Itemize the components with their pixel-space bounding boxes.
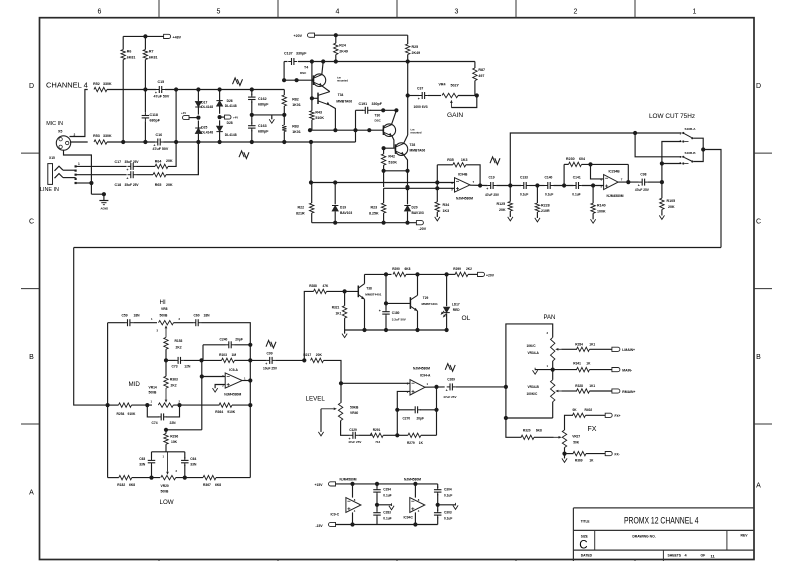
svg-text:LOW: LOW [160, 499, 174, 506]
svg-text:497: 497 [478, 74, 484, 78]
transistor T34 [317, 93, 319, 104]
svg-text:C: C [756, 218, 761, 225]
svg-text:R64: R64 [155, 160, 162, 164]
svg-text:+: + [486, 187, 488, 191]
capacitor C59 [127, 319, 129, 326]
svg-text:IC9-C: IC9-C [331, 512, 340, 516]
resistor R364 [219, 403, 232, 407]
wire C17 to R64 [137, 165, 156, 167]
wire R65 up to diode column [166, 142, 198, 175]
wire R217 down wire [310, 359, 312, 361]
svg-text:910K: 910K [227, 410, 236, 414]
resistor R228 [536, 186, 538, 204]
svg-text:2K49: 2K49 [412, 51, 421, 55]
capacitor C129 [341, 421, 350, 436]
svg-text:33N: 33N [190, 463, 197, 467]
svg-text:C137: C137 [284, 52, 293, 56]
svg-text:NJM4580M: NJM4580M [224, 392, 241, 396]
test point sine 1 [233, 78, 243, 86]
svg-text:C37: C37 [417, 86, 423, 90]
svg-text:1K01: 1K01 [292, 103, 301, 107]
svg-text:12N: 12N [184, 365, 191, 369]
svg-text:IC94C: IC94C [404, 516, 414, 520]
svg-text:C269: C269 [447, 377, 455, 381]
svg-text:C304: C304 [444, 488, 452, 492]
svg-text:NJM4580M: NJM4580M [413, 366, 430, 370]
svg-text:IC294B: IC294B [609, 170, 621, 174]
capacitor C163 [251, 118, 253, 124]
connector MAIN- [612, 368, 620, 372]
svg-text:100K: 100K [597, 209, 606, 213]
svg-text:C64: C64 [190, 457, 196, 461]
svg-text:MAIN-: MAIN- [622, 368, 632, 372]
svg-text:DRAWING NO.: DRAWING NO. [632, 535, 655, 539]
capacitor C270 [397, 409, 412, 411]
svg-text:LMAIN+: LMAIN+ [622, 348, 635, 352]
resistor R35 feedback [436, 165, 438, 183]
wire C141 to pin5 [582, 185, 604, 187]
svg-text:LOW CUT 75Hz: LOW CUT 75Hz [649, 113, 695, 120]
svg-text:1K: 1K [419, 441, 424, 445]
svg-text:BAV103: BAV103 [340, 211, 352, 215]
svg-text:R284: R284 [575, 342, 583, 346]
svg-text:R321: R321 [332, 305, 340, 309]
wire rail to LED col [418, 273, 447, 275]
resistor R230 feedback [563, 164, 565, 185]
svg-text:R230: R230 [566, 157, 575, 161]
wire T29 emitter [417, 311, 419, 330]
svg-text:+20V: +20V [486, 273, 495, 277]
wire switch throws [693, 138, 703, 161]
resistor R87 [474, 62, 476, 69]
wire plus input row [341, 382, 410, 384]
svg-text:+4V: +4V [181, 111, 186, 115]
capacitor C304 [437, 484, 439, 488]
svg-text:VR20: VR20 [161, 484, 169, 488]
svg-text:10K: 10K [171, 440, 178, 444]
svg-text:X5: X5 [58, 130, 62, 134]
potentiometer VR27 FX [562, 430, 566, 448]
wire bypass column [510, 133, 681, 186]
svg-text:R288: R288 [309, 284, 317, 288]
svg-text:-15V: -15V [316, 524, 324, 528]
svg-text:R42: R42 [388, 155, 395, 159]
capacitor C140 [547, 182, 549, 189]
svg-text:47uF 25V: 47uF 25V [443, 395, 456, 399]
svg-text:IC94-A: IC94-A [420, 373, 431, 377]
svg-text:C283: C283 [383, 511, 391, 515]
wire IC9-A out [242, 380, 250, 382]
capacitor C294 [376, 484, 378, 488]
svg-text:C17: C17 [115, 160, 122, 164]
svg-text:DSC: DSC [300, 71, 307, 75]
resistor R43 [311, 98, 313, 111]
wire IC94-A out [425, 386, 445, 388]
capacitor C269 [445, 364, 455, 372]
resistor R53 [94, 140, 107, 144]
svg-text:C19: C19 [489, 176, 495, 180]
svg-text:VR14: VR14 [149, 385, 157, 389]
svg-text:47uF 50V: 47uF 50V [153, 147, 169, 151]
svg-text:100K/C: 100K/C [527, 392, 539, 396]
svg-text:1K1: 1K1 [589, 342, 595, 346]
svg-text:MMBT4401: MMBT4401 [365, 292, 381, 296]
svg-text:R22: R22 [298, 205, 305, 209]
svg-text:1K1: 1K1 [336, 311, 342, 315]
svg-text:R6: R6 [127, 50, 132, 54]
svg-text:NJM4580M: NJM4580M [404, 478, 421, 482]
svg-text:HI: HI [160, 299, 166, 306]
wire minus input [201, 360, 203, 429]
svg-text:6K8: 6K8 [129, 483, 135, 487]
svg-text:821R: 821R [296, 211, 305, 215]
wire MID row [108, 404, 119, 406]
svg-text:T34: T34 [338, 93, 344, 97]
svg-text:C240: C240 [220, 337, 228, 341]
resistor R153 [164, 337, 168, 349]
svg-text:0.1uF: 0.1uF [572, 192, 580, 196]
svg-text:C140: C140 [545, 175, 553, 179]
svg-text:C99: C99 [267, 351, 273, 355]
svg-text:2: 2 [574, 9, 578, 16]
svg-text:6K8: 6K8 [405, 267, 411, 271]
wire jack ring row [76, 174, 127, 176]
svg-text:50KB: 50KB [350, 405, 359, 409]
wire to PAN [456, 386, 506, 388]
svg-text:50K: 50K [573, 441, 580, 445]
wire T4 collector row [284, 61, 287, 63]
svg-text:680pF: 680pF [150, 119, 161, 123]
svg-text:R254: R254 [117, 412, 125, 416]
svg-text:+48V: +48V [173, 35, 182, 39]
svg-text:MID: MID [129, 381, 141, 388]
wire +48V rail [123, 35, 163, 37]
svg-text:20K: 20K [499, 208, 506, 212]
resistor R290 [393, 272, 406, 276]
svg-text:47uF 25V: 47uF 25V [485, 193, 500, 197]
svg-text:22N: 22N [170, 421, 177, 425]
wire VR8 to C60 [174, 322, 193, 324]
svg-text:T4: T4 [304, 66, 308, 70]
svg-text:NJM4580M: NJM4580M [340, 478, 357, 482]
svg-text:20pF: 20pF [235, 337, 243, 341]
svg-text:C303: C303 [444, 511, 452, 515]
wire MID to R364 [173, 404, 219, 406]
potentiometer VR14 MID [158, 403, 173, 407]
wire +15V rail [336, 483, 438, 485]
resistor R320 [521, 435, 534, 439]
capacitor C73 [166, 359, 175, 361]
svg-text:330pF: 330pF [372, 102, 383, 106]
potentiometer VR34-A [551, 337, 555, 361]
svg-text:20K: 20K [668, 205, 675, 209]
wire output to switch contacts [662, 142, 682, 183]
transistor T30 [383, 124, 396, 137]
svg-text:VR8: VR8 [161, 307, 168, 311]
svg-text:8.25K: 8.25K [369, 211, 379, 215]
resistor R24 [335, 35, 337, 43]
svg-text:210R: 210R [541, 209, 550, 213]
wire EQ left rail [74, 248, 108, 406]
capacitor C99 [266, 340, 276, 348]
svg-text:47uF 25V: 47uF 25V [348, 440, 361, 444]
resistor R367 [203, 475, 216, 479]
svg-text:+: + [126, 176, 128, 180]
diode D26 [219, 90, 221, 101]
svg-text:R125: R125 [497, 202, 506, 206]
svg-text:3: 3 [455, 9, 459, 16]
svg-text:C118: C118 [150, 113, 158, 117]
wire -15V rail [336, 524, 438, 526]
ground OL rail [344, 330, 346, 334]
resistor R52 [94, 87, 107, 91]
wiper VR27 [554, 436, 559, 438]
resistor R125 [509, 186, 511, 202]
svg-text:20pF: 20pF [417, 416, 424, 420]
svg-text:500B: 500B [160, 314, 169, 318]
svg-text:680pF: 680pF [258, 130, 269, 134]
led LD17 [446, 274, 448, 306]
svg-text:NJM4580M: NJM4580M [456, 197, 473, 201]
capacitor C283 [376, 505, 378, 511]
resistor R279 [408, 433, 421, 437]
svg-text:20K: 20K [166, 183, 173, 187]
svg-text:18N: 18N [204, 314, 211, 318]
wire T28 collector [404, 135, 408, 144]
svg-text:6K81: 6K81 [127, 56, 136, 60]
svg-text:C: C [29, 218, 34, 225]
wire PAN mid node [553, 369, 577, 371]
resistor R217 [311, 358, 324, 362]
capacitor C27 [408, 95, 419, 97]
svg-text:C59: C59 [122, 314, 128, 318]
wire OL top rail [365, 273, 392, 275]
svg-text:R153: R153 [175, 339, 183, 343]
wire EQ rail2 [107, 323, 109, 478]
wire C98 to R105 node [648, 181, 662, 183]
svg-text:D25: D25 [201, 126, 207, 130]
op-amp IC94B second [604, 175, 619, 190]
svg-text:MIC IN: MIC IN [46, 121, 63, 127]
svg-text:4: 4 [336, 9, 340, 16]
wire mic+ row [165, 89, 284, 91]
resistor R42 [383, 148, 385, 154]
svg-text:R52: R52 [93, 82, 100, 86]
wire row B [384, 187, 455, 189]
wire mic- row [164, 141, 356, 143]
ground C304 C303 [438, 504, 456, 506]
wire T30 collector [392, 110, 397, 124]
wire C18 to R65 [137, 174, 154, 176]
svg-text:R23: R23 [371, 205, 378, 209]
capacitor C60 [195, 319, 197, 326]
svg-text:D17: D17 [201, 100, 207, 104]
svg-text:IC9-A: IC9-A [229, 368, 238, 372]
svg-text:VR40: VR40 [350, 411, 358, 415]
ground LEVEL wiper [320, 409, 322, 432]
svg-text:R320: R320 [523, 428, 531, 432]
svg-text:R290: R290 [392, 267, 400, 271]
wire R64 up to mic- row [168, 90, 176, 167]
capacitor C133 [523, 182, 525, 189]
svg-text:DL4148: DL4148 [225, 104, 237, 108]
svg-text:-20V: -20V [419, 227, 427, 231]
svg-text:REV: REV [741, 534, 749, 538]
svg-text:33N: 33N [139, 463, 146, 467]
wire minus fb [397, 391, 410, 435]
resistor R288 [314, 289, 327, 293]
svg-text:+20V: +20V [294, 34, 303, 38]
capacitor C64 [181, 459, 189, 461]
svg-text:T38: T38 [366, 287, 372, 291]
svg-text:R228: R228 [541, 203, 550, 207]
wire R288 input [304, 291, 313, 360]
resistor R402 [565, 415, 574, 430]
svg-text:C63: C63 [139, 457, 145, 461]
wire PAN bus [506, 324, 553, 418]
svg-text:C133: C133 [520, 175, 528, 179]
svg-text:47K: 47K [323, 284, 330, 288]
switch S16B-A [682, 132, 684, 134]
svg-text:C98: C98 [640, 172, 646, 176]
wire C162 mid node [251, 112, 253, 117]
resistor R254 [119, 403, 132, 407]
svg-text:510K: 510K [388, 161, 397, 165]
wire R25 column to T28 [407, 96, 409, 136]
svg-text:GAIN: GAIN [447, 112, 463, 119]
svg-text:DATED: DATED [581, 554, 593, 558]
wire lowcut return [703, 150, 721, 248]
svg-text:R82: R82 [292, 97, 299, 101]
capacitor C118 [144, 90, 146, 113]
svg-text:B: B [756, 354, 761, 361]
svg-text:0.1uF: 0.1uF [383, 517, 391, 521]
svg-text:5: 5 [217, 9, 221, 16]
capacitor C162 [251, 90, 253, 96]
wire R296 top link [166, 429, 202, 431]
wire long loop [74, 247, 721, 249]
svg-text:1K: 1K [586, 362, 591, 366]
svg-text:1K1: 1K1 [589, 384, 595, 388]
switch S16B-B [682, 156, 684, 158]
svg-text:0.1uF: 0.1uF [383, 494, 391, 498]
transistor T28 [395, 143, 408, 156]
svg-text:3.3uF 50V: 3.3uF 50V [392, 317, 406, 321]
svg-text:1M: 1M [232, 353, 237, 357]
svg-text:910K: 910K [128, 412, 137, 416]
wire C137 left column [283, 62, 285, 80]
svg-text:+: + [126, 168, 128, 172]
ground PAN mid [535, 369, 553, 371]
svg-text:DL4148: DL4148 [225, 133, 237, 137]
svg-text:330K: 330K [103, 82, 112, 86]
wire rail to T29 base col [385, 274, 387, 309]
svg-text:T30: T30 [375, 113, 381, 117]
svg-text:+15V: +15V [315, 483, 324, 487]
wire T4 base [284, 79, 314, 81]
svg-text:R83: R83 [292, 125, 299, 129]
wire PAN left to R320 [506, 418, 522, 437]
wire C73 to R103 [184, 359, 222, 361]
capacitor C303 [437, 505, 439, 511]
wire T38 collector [364, 274, 366, 283]
connector LMAIN+ [612, 347, 620, 351]
resistor R284 [577, 347, 590, 351]
op-amp IC94C [410, 498, 425, 513]
diode D17 [197, 90, 199, 102]
wire row A [311, 182, 455, 184]
svg-text:R402: R402 [585, 408, 593, 412]
wire C137 right column to T34 base [311, 62, 313, 99]
svg-text:R363: R363 [170, 377, 178, 381]
resistor R34 [436, 183, 438, 202]
svg-text:35uF 25V: 35uF 25V [125, 183, 140, 187]
svg-text:18N: 18N [134, 314, 141, 318]
svg-text:FX-: FX- [615, 452, 620, 456]
svg-text:500B: 500B [149, 390, 158, 394]
svg-text:1: 1 [693, 9, 697, 16]
svg-text:6K8: 6K8 [215, 483, 221, 487]
wire C140 to C141 [554, 185, 574, 187]
svg-text:500B: 500B [161, 489, 170, 493]
svg-text:VR27: VR27 [572, 435, 580, 439]
svg-text:D: D [756, 83, 761, 90]
svg-text:1K3: 1K3 [461, 158, 468, 162]
connector +4V left [183, 116, 190, 120]
svg-text:MMBTA06: MMBTA06 [410, 148, 426, 152]
wire fb right vert [436, 387, 438, 435]
resistor R7 [144, 36, 146, 49]
svg-text:+: + [446, 389, 448, 393]
resistor R369 [565, 453, 574, 455]
capacitor C16 [157, 139, 159, 146]
svg-text:DL4148: DL4148 [201, 131, 213, 135]
capacitor C191 [355, 110, 357, 142]
svg-text:TITLE: TITLE [581, 519, 590, 523]
capacitor C18 [130, 171, 132, 178]
op-amp IC94-A [410, 380, 425, 395]
svg-text:+4V: +4V [233, 116, 238, 120]
svg-text:R7: R7 [149, 50, 154, 54]
resistor R182 [119, 475, 132, 479]
resistor R296 [165, 430, 167, 434]
diode D19 [334, 183, 336, 205]
wire T4 emitter to T34 collector [322, 86, 330, 92]
resistor R83 [283, 115, 285, 125]
capacitor C180 [382, 311, 390, 313]
wire R42 to emitter link [384, 170, 408, 172]
svg-text:C294: C294 [383, 488, 391, 492]
resistor R105 [661, 182, 663, 198]
svg-text:+: + [265, 362, 267, 366]
capacitor C74 [147, 405, 159, 417]
svg-text:R43: R43 [315, 110, 322, 114]
svg-text:0.1uF: 0.1uF [444, 494, 452, 498]
potentiometer VR34-B [551, 380, 555, 402]
resistor R299 [447, 273, 456, 275]
svg-text:C15: C15 [158, 80, 165, 84]
resistor R163 [165, 360, 167, 376]
svg-text:PROMX 12 CHANNEL 4: PROMX 12 CHANNEL 4 [624, 515, 699, 526]
svg-text:R279: R279 [407, 441, 415, 445]
svg-text:OL: OL [462, 315, 471, 322]
connector +4V right [220, 116, 225, 118]
potentiometer VR40 LEVEL [340, 383, 342, 403]
svg-text:R35: R35 [447, 158, 454, 162]
svg-text:R105: R105 [667, 199, 676, 203]
wire jack sleeve to ground [76, 182, 92, 184]
capacitor C137 [291, 58, 293, 65]
